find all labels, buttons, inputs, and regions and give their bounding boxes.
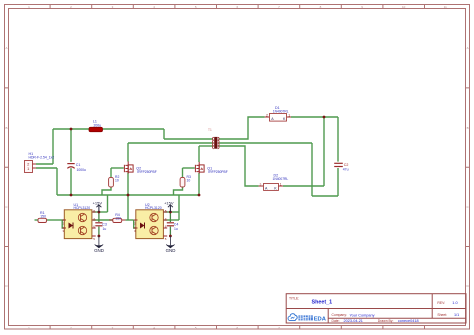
svg-text:A: A [5, 46, 7, 50]
pin 3 of U2 [134, 227, 138, 229]
svg-text:IRFP250PBF: IRFP250PBF [137, 170, 156, 174]
resistor R2 [109, 175, 120, 187]
capacitor C2 [334, 163, 348, 172]
pin 5 of U2 [163, 235, 167, 237]
svg-text:1: 1 [288, 113, 290, 117]
resistor R1 [38, 211, 47, 222]
svg-text:A: A [467, 46, 469, 50]
diode D1 [265, 106, 291, 121]
wire header pin1 [36, 167, 57, 169]
wire Q2 gate down to R2 [110, 168, 112, 177]
wire transformer sec bottom to D2 [219, 146, 259, 186]
wire L1 to step [103, 128, 165, 130]
svg-text:11: 11 [444, 5, 447, 9]
svg-text:Your Company: Your Company [350, 313, 375, 317]
wire U1 vcc node to C3 top [98, 212, 100, 222]
wire U1 pin7 to R4 [93, 219, 113, 221]
svg-text:2: 2 [266, 113, 268, 117]
svg-text:HCPL3120: HCPL3120 [145, 206, 162, 210]
svg-text:IRFP250PBF: IRFP250PBF [208, 170, 227, 174]
wire transformer center left to Q2 drain [128, 142, 213, 144]
svg-text:HCPL3120: HCPL3120 [74, 206, 91, 210]
resistor R3 [180, 175, 191, 187]
wire U2 vcc tap to rail [178, 195, 180, 220]
node junction rail C1 [70, 194, 73, 197]
pin 1 of D1 [287, 116, 291, 118]
wire U1 pin8 to tap [93, 211, 108, 213]
wire U1 vcc tap to rail [107, 195, 109, 212]
wire U2 pin7 [164, 219, 179, 221]
wire header pin2 to corner [36, 163, 53, 165]
svg-text:Sheet:: Sheet: [437, 313, 447, 317]
pin 3 of U1 [62, 227, 66, 229]
wire C2 bottom vertical [337, 168, 339, 196]
diode D2 [259, 174, 289, 191]
svg-text:REV:: REV: [437, 301, 445, 305]
svg-text:10: 10 [402, 5, 406, 9]
svg-text:Drawn By:: Drawn By: [378, 319, 394, 323]
wire C2 top vertical [337, 117, 339, 162]
wire D2 cathode right [283, 185, 324, 187]
wire top rail to L1 [53, 128, 89, 130]
svg-text:1000u: 1000u [77, 168, 87, 172]
op-amp U1 optocoupler HCPL3120 [62, 203, 95, 241]
svg-text:HDR-F-2.54_1x2: HDR-F-2.54_1x2 [29, 156, 55, 160]
svg-text:+15V: +15V [93, 200, 103, 205]
pin 7 of U1 [92, 219, 96, 221]
capacitor C1 [67, 163, 86, 172]
pin 7 of U2 [163, 219, 167, 221]
wire C3 bottom to U1 vee node [98, 227, 100, 236]
svg-text:2: 2 [260, 183, 262, 187]
wire Q1 source [198, 173, 200, 195]
wire header pin1 down [56, 168, 58, 195]
pin 5 of U1 [92, 235, 96, 237]
wire Q1 gate [183, 167, 195, 169]
op-amp U2 optocoupler HCPL3120 [134, 203, 168, 241]
node junction D1 D2 output [323, 116, 326, 119]
power flag +15V U1 [93, 200, 103, 212]
node junction U1 vee [98, 235, 101, 238]
wire transformer sec top to D1 [219, 117, 265, 139]
svg-text:1N4007RL: 1N4007RL [273, 110, 289, 114]
svg-text:C1: C1 [76, 163, 81, 167]
wire R3 bottom jog [174, 187, 183, 195]
resistor R4 [109, 213, 125, 222]
inductor L1 [89, 119, 103, 131]
transformer T1 [208, 128, 219, 149]
transistor Q1 [195, 162, 204, 174]
wire Q1 drain vertical [198, 146, 200, 162]
svg-text:+15V: +15V [164, 200, 174, 205]
header H1 [25, 152, 55, 173]
svg-text:EDA: EDA [314, 316, 327, 322]
svg-text:C2: C2 [344, 163, 349, 167]
transistor inside U1 bottom [78, 226, 86, 234]
ground GND U2 [166, 236, 176, 253]
wire U2 input jog [134, 220, 136, 228]
svg-text:150: 150 [40, 215, 46, 219]
pin 8 of U2 [163, 211, 167, 213]
wire D1 cathode to C2 top [291, 116, 338, 118]
svg-text:Sheet_1: Sheet_1 [312, 300, 333, 306]
capacitor C4 [167, 223, 179, 231]
wire C1 bottom branch [70, 168, 72, 195]
svg-text:2023-04-21: 2023-04-21 [344, 319, 363, 323]
svg-text:150: 150 [115, 217, 121, 221]
wire R1 to U1 input [47, 219, 63, 221]
svg-text:47u: 47u [343, 168, 349, 172]
svg-text:1/1: 1/1 [454, 313, 459, 317]
ground GND U1 [94, 236, 104, 253]
capacitor C3 [95, 223, 107, 231]
wire transformer bottom left to Q1 drain [199, 145, 213, 147]
wire net VIN top rail [35, 117, 339, 228]
svg-text:Date:: Date: [332, 319, 340, 323]
transistor inside U1 top [78, 213, 86, 221]
svg-text:200u: 200u [94, 123, 102, 127]
LED inside U2 [140, 223, 145, 229]
power flag +15V U2 [164, 200, 174, 212]
pin 6 of U2 [163, 227, 167, 229]
pin 2 of U1 [62, 219, 66, 221]
wire step down [163, 129, 165, 139]
wire U1 input jog [62, 220, 64, 228]
svg-text:B: B [5, 126, 7, 130]
svg-text:Company:: Company: [332, 313, 348, 317]
wire U2 vcc node to C4 top [169, 212, 171, 222]
node junction U1 vcc [98, 211, 101, 214]
transistor inside U2 top [150, 213, 158, 221]
svg-text:1.0: 1.0 [452, 300, 458, 305]
svg-text:1u: 1u [103, 227, 107, 231]
node junction rail Q2 source [127, 194, 130, 197]
svg-text:10: 10 [115, 179, 119, 183]
node junction U2 vee [169, 235, 172, 238]
wire Q2 source down through rail to R4 row [127, 173, 129, 221]
svg-text:TITLE:: TITLE: [289, 296, 299, 300]
svg-text:GND: GND [166, 248, 176, 253]
pin 2 of D1 [265, 116, 269, 118]
wire U1 pin2 stub wire [62, 219, 64, 221]
pin 6 of U1 [92, 227, 96, 229]
wire Q2 drain vertical [127, 143, 129, 162]
wire center tap vertical right [311, 143, 313, 196]
node junction top C1 [70, 128, 73, 131]
svg-text:1N4007RL: 1N4007RL [273, 177, 289, 181]
wire R1 input stub [35, 219, 39, 221]
svg-text:conece0418: conece0418 [398, 319, 419, 323]
pin 1 of H1 [33, 167, 37, 169]
transistor inside U2 bottom [150, 226, 158, 234]
pin 2 of D2 [259, 185, 263, 187]
svg-text:10: 10 [187, 179, 191, 183]
svg-text:1u: 1u [174, 227, 178, 231]
pin stubs R4 [109, 219, 125, 221]
wire C2 bottom to center tap vertical [312, 195, 338, 197]
node junction U2 vcc [169, 211, 172, 214]
pin 1 of D2 [279, 185, 283, 187]
junction dots [70, 116, 326, 238]
transistor Q2 [124, 161, 133, 173]
wire R2 bottom jog [102, 187, 111, 195]
svg-text:GND: GND [94, 248, 104, 253]
wire transformer center right [219, 142, 313, 144]
wire step to transformer pin1 [164, 138, 213, 140]
wire C4 bottom to U2 vee node [169, 227, 171, 236]
wire U2 pin8 to tap [164, 211, 179, 213]
logo EasyEDA [288, 314, 327, 323]
wire vertical up from header pin2 [52, 129, 54, 164]
wire C1 top branch [70, 129, 72, 162]
pin 2 of U2 [134, 219, 138, 221]
svg-text:B: B [467, 126, 469, 130]
wire R4 right to U2 [125, 219, 133, 221]
wire Q2 gate [111, 167, 124, 169]
node junction rail Q1 source [198, 194, 201, 197]
pin 2 of H1 [33, 163, 37, 165]
svg-text:1: 1 [280, 183, 282, 187]
svg-text:T1: T1 [208, 128, 212, 132]
pin 8 of U1 [92, 211, 96, 213]
wire D2 output up to D1 output [323, 117, 325, 186]
wire bottom rail [57, 194, 199, 196]
wire Q1 gate down to R3 [182, 168, 184, 177]
title block [286, 294, 466, 323]
LED inside U1 [69, 223, 74, 229]
